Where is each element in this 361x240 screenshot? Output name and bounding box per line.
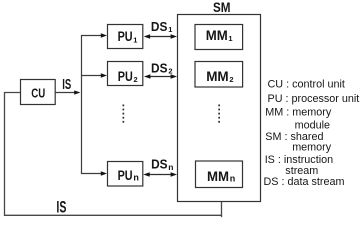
box PU1 bbox=[108, 25, 143, 49]
feedback wire SM to CU (IS return path) bbox=[5, 93, 222, 218]
svg-text:SM: SM bbox=[213, 0, 231, 15]
svg-text:DS: DS bbox=[151, 19, 168, 34]
label DS1 bbox=[151, 19, 173, 34]
svg-text:CU : control unit: CU : control unit bbox=[268, 79, 345, 91]
label MMn bbox=[207, 169, 235, 184]
svg-text:n: n bbox=[230, 173, 236, 183]
label DSn bbox=[151, 157, 173, 172]
wire bus to PUn with arrow bbox=[81, 171, 107, 175]
vertical ellipsis dots (left, between PU2 and PUn) bbox=[123, 105, 125, 123]
svg-text:CU: CU bbox=[31, 86, 45, 101]
box PUn bbox=[108, 162, 143, 187]
label PUn bbox=[118, 168, 139, 183]
svg-text:IS: IS bbox=[62, 77, 71, 93]
svg-text:MM: MM bbox=[206, 69, 229, 84]
double arrow DS2 bbox=[144, 74, 177, 78]
label MM2 bbox=[206, 69, 233, 84]
label MM1 bbox=[206, 28, 233, 43]
svg-text:PU: PU bbox=[118, 168, 133, 183]
svg-text:n: n bbox=[133, 173, 139, 183]
box SM (shared memory outer) bbox=[178, 15, 261, 202]
box MM2 bbox=[195, 62, 243, 88]
svg-text:2: 2 bbox=[134, 75, 138, 84]
label DS2 bbox=[151, 61, 173, 76]
svg-text:DS: DS bbox=[151, 61, 168, 76]
svg-text:MM: MM bbox=[207, 169, 229, 184]
label PU1 bbox=[118, 29, 138, 44]
box MMn bbox=[196, 161, 243, 188]
svg-text:DS: DS bbox=[151, 157, 168, 172]
svg-text:1: 1 bbox=[228, 34, 232, 43]
svg-text:IS: IS bbox=[56, 199, 66, 217]
svg-text:1: 1 bbox=[168, 25, 172, 34]
bus line (vertical instruction bus) bbox=[81, 36, 83, 174]
box MM1 bbox=[195, 25, 243, 50]
wire CU to bus with arrow bbox=[55, 90, 80, 94]
svg-text:PU: PU bbox=[118, 69, 133, 84]
svg-text:module: module bbox=[295, 119, 330, 131]
vertical ellipsis dots (right, inside SM) bbox=[218, 105, 220, 123]
svg-text:PU: PU bbox=[118, 29, 133, 44]
svg-text:DS : data stream: DS : data stream bbox=[264, 176, 345, 188]
box CU bbox=[21, 80, 56, 105]
svg-text:PU : processor unit: PU : processor unit bbox=[268, 93, 360, 105]
double arrow DS1 bbox=[144, 34, 177, 38]
svg-text:n: n bbox=[168, 162, 173, 172]
svg-text:2: 2 bbox=[168, 67, 172, 76]
box PU2 bbox=[108, 62, 143, 86]
svg-text:1: 1 bbox=[133, 35, 137, 44]
svg-text:2: 2 bbox=[229, 75, 233, 84]
label PU2 bbox=[118, 69, 138, 84]
svg-text:MM : memory: MM : memory bbox=[265, 107, 332, 119]
wire bus to PU2 with arrow bbox=[81, 73, 107, 77]
svg-text:memory: memory bbox=[292, 141, 332, 153]
svg-text:MM: MM bbox=[206, 28, 228, 43]
double arrow DSn bbox=[143, 172, 177, 176]
wire bus to PU1 with arrow bbox=[81, 33, 107, 37]
